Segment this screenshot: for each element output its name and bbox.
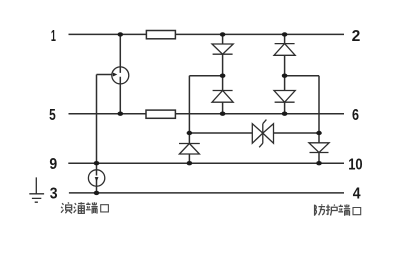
svg-text:6: 6 [352,107,359,124]
pin 3 label [50,186,58,203]
wire node A branch down to TVS rail [188,76,190,133]
gas discharge tube GDT2 (2-electrode arrester) [88,170,104,186]
svg-text:4: 4 [353,186,361,203]
wire left diode column top segment [222,34,224,44]
ground symbol (at pin 3) [29,177,44,202]
bidirectional TVS (bowtie) [252,120,273,148]
resistor R2 (line 5-6) [146,110,175,118]
wire line 1 to 2 (top row) [69,33,345,35]
wire line 3 to 4 [69,192,344,194]
caption 防护端口 (protected port) [315,204,361,215]
wire left rail (from GDT1 arm down to line 3-4) [96,75,98,193]
diode D2 (anode at line 5, cathode to mid node A) [212,91,233,103]
diode D4 (anode at mid node B, cathode at line 5) [274,91,295,103]
wire line 5 to 6 [69,113,345,115]
svg-text:2: 2 [352,28,361,45]
svg-text:1: 1 [51,28,56,45]
svg-text:3: 3 [50,186,58,203]
pin 4 label [353,186,361,203]
svg-text:9: 9 [49,156,57,173]
wire mid node A down to D2 [222,76,224,91]
wire D1 cathode to mid node A [222,54,224,75]
resistor R1 (line 1-2) [146,31,175,39]
wire D4 cathode to line 5 [284,102,286,114]
svg-text:5: 5 [49,107,56,124]
wire mid node B to right branch [285,75,319,77]
wire right diode column top segment [284,34,286,43]
pin 10 label [348,156,362,173]
pin 5 label [49,107,56,124]
svg-text:10: 10 [348,156,362,173]
pin 9 label [49,156,57,173]
wire TVS rail right segment [274,132,320,134]
wire mid node B down to D4 [284,76,286,91]
GDT1 third-electrode arm with arrowhead [97,73,118,77]
pin 6 label [352,107,359,124]
pin 1 label [51,28,56,45]
diode D1 (anode at line 1, cathode to mid node) [212,44,233,54]
caption 浪涌端口 (surge port) [61,202,108,213]
wire D3 anode to mid node B [284,55,286,75]
wire line 9 to 10 [68,162,344,164]
diode D5 (anode at line 9, cathode to TVS rail) [179,133,200,163]
pin 2 label [352,28,361,45]
wire mid node A to left (node A branch) [189,75,222,77]
diode D6 (anode at TVS rail, cathode at line 9-10) [309,133,329,163]
wire D2 anode to line 5 [222,102,224,114]
gas discharge tube GDT1 (3-electrode arrester) [112,67,129,84]
wire GDT1 column (line1 to line5 through gas tube) [119,34,121,113]
wire TVS rail left segment [189,132,252,134]
wire node B branch down to TVS rail [318,76,320,133]
diode D3 (cathode at line 1, anode at mid node B) [274,44,295,56]
